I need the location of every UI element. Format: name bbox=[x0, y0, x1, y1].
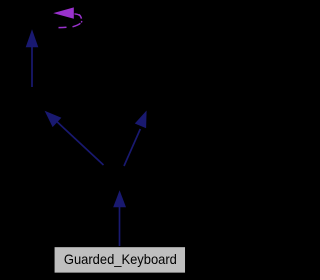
svg-text:Guarded_Keyboard: Guarded_Keyboard bbox=[64, 251, 177, 267]
